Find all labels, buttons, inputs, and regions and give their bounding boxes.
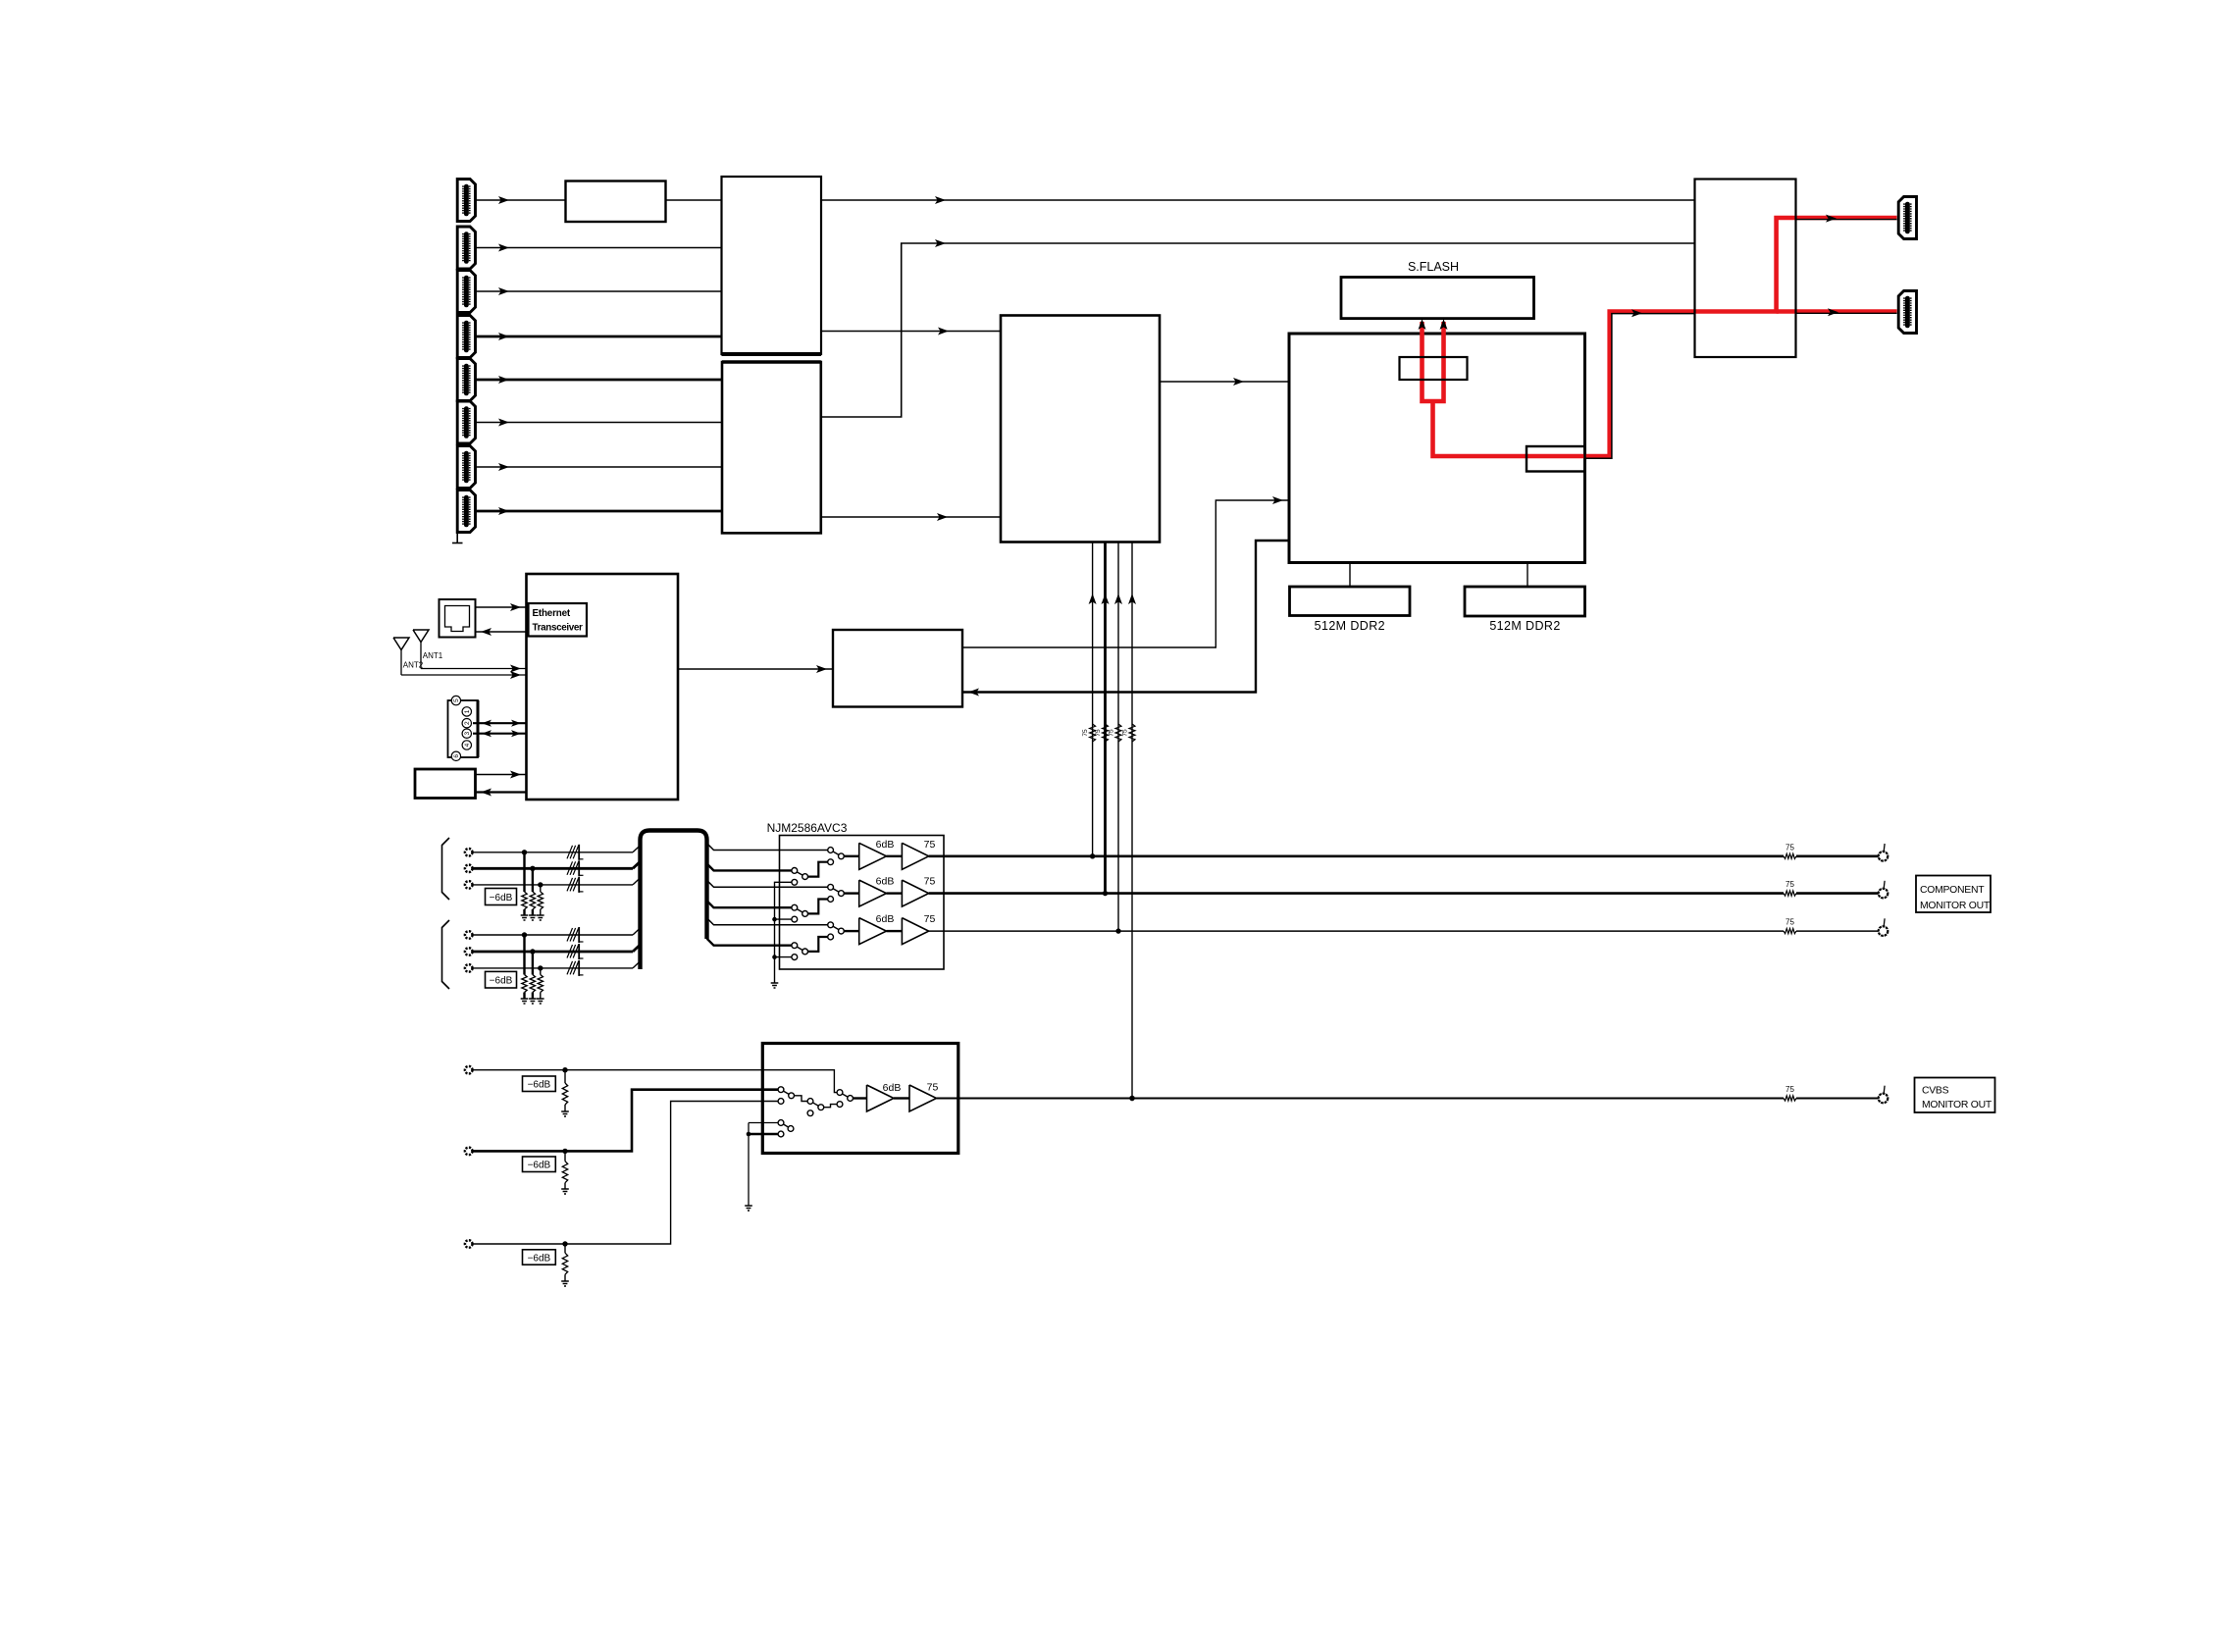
analog switch channel 2 (lower) (792, 904, 808, 922)
wire: analog video return line 2 into processor (1102, 542, 1110, 897)
svg-text:COMPONENT: COMPONENT (1920, 885, 1985, 896)
svg-text:CVBS: CVBS (1922, 1086, 1949, 1097)
component input jack group2 ch1 (465, 931, 473, 939)
wire: HDMI input 3 to HDMI switch (476, 287, 722, 295)
svg-text:NJM2586AVC3: NJM2586AVC3 (767, 821, 848, 835)
DDR2 memory module 1 (1290, 563, 1411, 616)
red HDMI-out video path wire (1433, 218, 1897, 456)
CVBS switch/amp box U70 (762, 1044, 958, 1154)
svg-text:MONITOR OUT: MONITOR OUT (1920, 901, 1991, 911)
wire: HDMI input 7 to HDMI switch (476, 463, 722, 471)
resistor 75 label on return line 3 (1109, 729, 1115, 737)
75 label CVBS (927, 1082, 939, 1094)
-6dB attenuator box CVBS 3 (523, 1250, 556, 1265)
wire: switch U12 out up to HDMI TX (821, 239, 1695, 417)
component input wire group1 ch3 (472, 877, 640, 893)
component input wire group1 ch1 (472, 845, 640, 860)
wire: video processor to SoC (1160, 378, 1289, 386)
wire: network module to RJ45 (476, 628, 527, 636)
component input wire group2 ch3 (472, 960, 640, 976)
component output wire ch3 (929, 929, 1879, 934)
75 label ch2 (924, 876, 936, 888)
component input wire group2 ch2 (472, 944, 640, 959)
CVBS amplifier 6dB (867, 1085, 895, 1111)
wire: ANT2 to module (401, 671, 527, 679)
wire: HDMI input 2 to HDMI switch (476, 244, 722, 252)
resistor 75 label on return line 4 (1122, 729, 1129, 737)
svg-text:75: 75 (924, 913, 936, 925)
wire amp to buffer ch1 (887, 855, 903, 857)
wire: bundle exit 4 (707, 901, 792, 907)
CVBS input wire 3 (472, 1102, 778, 1247)
CVBS buffer 75 (909, 1085, 937, 1111)
wire: DIN pin2 to module (bidirectional) (473, 720, 527, 727)
COMPONENT MONITOR OUT label box (1916, 876, 1991, 913)
amplifier 6dB ch3 (859, 918, 887, 945)
-6dB attenuator box CVBS 2 (523, 1157, 556, 1172)
component input jack group1 ch2 (465, 865, 473, 873)
component input wire group1 ch2 (472, 860, 640, 876)
buffer amp 75 ch3 (902, 918, 928, 945)
wire: network module to bridge box (678, 665, 833, 673)
CVBS termination resistor 3 (561, 1244, 569, 1286)
svg-text:6dB: 6dB (876, 839, 895, 851)
component output jack ch2 (1879, 881, 1889, 899)
svg-text:75: 75 (1109, 729, 1115, 737)
svg-text:75: 75 (1082, 729, 1089, 737)
wire: U51 to module (476, 771, 527, 779)
-6dB attenuator box group 2 (486, 971, 517, 988)
svg-text:MONITOR OUT: MONITOR OUT (1922, 1100, 1992, 1110)
input bracket group 1 (442, 838, 450, 900)
75 output resistor label ch2 (1785, 880, 1794, 889)
analog switch channel 3 (lower) (792, 943, 808, 960)
step wire B to C (824, 1105, 837, 1108)
CVBS selector switch A (778, 1087, 794, 1105)
svg-text:75: 75 (924, 876, 936, 888)
wire: RJ45 to network module (476, 603, 527, 611)
wire switch to CVBS amp (854, 1097, 867, 1099)
svg-text:4: 4 (464, 743, 471, 747)
svg-text:3: 3 (464, 732, 471, 736)
svg-text:6dB: 6dB (876, 876, 895, 888)
HDMI input connector J3 (457, 271, 475, 313)
svg-text:−6dB: −6dB (528, 1253, 551, 1264)
6dB label CVBS (883, 1082, 902, 1094)
svg-text:5: 5 (453, 698, 460, 702)
termination resistor group1 ch3 (537, 885, 544, 920)
resistor 75 label on return line 2 (1095, 729, 1102, 737)
wire: bundle exit 6 (707, 939, 792, 946)
step wire A to B (795, 1096, 808, 1102)
svg-text:512M DDR2: 512M DDR2 (1489, 619, 1560, 633)
CVBS mute ground bus (745, 1123, 778, 1212)
CVBS input wire 1 (472, 1067, 837, 1093)
wire amp to buffer ch3 (887, 930, 903, 932)
mini-DIN pins (448, 696, 479, 760)
termination resistor group2 ch2 (529, 952, 537, 1004)
SoC main processor U30 (1289, 334, 1585, 563)
S.FLASH memory U31 (1341, 278, 1534, 319)
CVBS output wire (937, 1096, 1879, 1101)
termination resistor group1 ch1 (521, 852, 529, 920)
wire: HDMI input 5 to HDMI switch (476, 376, 722, 384)
component output wire ch2 (929, 891, 1879, 896)
svg-text:2: 2 (464, 721, 471, 725)
HDMI input connector J7 (457, 446, 475, 489)
svg-text:−6dB: −6dB (528, 1161, 551, 1171)
75 output resistor label ch3 (1785, 918, 1794, 927)
wire switch to amp ch3 (844, 930, 858, 932)
termination resistor group1 ch2 (529, 868, 537, 920)
wire: analog video return line 1 into processor (1089, 542, 1097, 859)
wire: HDMI input 4 to HDMI switch (476, 333, 722, 340)
network module U50 (527, 574, 679, 800)
wire: bundle exit 3 (707, 880, 828, 887)
512M DDR2 label 1 (1315, 619, 1385, 633)
video processor U20 (1001, 316, 1160, 542)
RJ45 connector J20 (440, 599, 476, 638)
step wire lower-switch to upper-alt ch2 (808, 900, 828, 914)
arrows into S.FLASH (1419, 319, 1448, 330)
svg-text:75: 75 (1785, 918, 1794, 927)
analog switch channel 1 (upper) (828, 848, 845, 865)
CVBS MONITOR OUT label box (1915, 1078, 1995, 1113)
HDMI output interface box U33 on SoC edge (1526, 446, 1585, 472)
wire: HDMI input 8 to HDMI switch (476, 507, 722, 515)
ANT2 label (403, 661, 424, 670)
CVBS selector switch B (807, 1099, 824, 1116)
buffer amp 75 ch2 (902, 880, 928, 906)
wire: module to U51 (476, 789, 527, 797)
svg-text:6dB: 6dB (876, 913, 895, 925)
svg-text:512M DDR2: 512M DDR2 (1315, 619, 1385, 633)
6dB label ch2 (876, 876, 895, 888)
HDMI output connector J11 (1898, 197, 1916, 239)
NJM mute ground bus (771, 882, 792, 988)
svg-text:−6dB: −6dB (528, 1080, 551, 1091)
75 output resistor label ch1 (1785, 843, 1794, 852)
svg-text:ANT2: ANT2 (403, 661, 424, 670)
wire switch to amp ch2 (844, 892, 858, 894)
wire: switch U11 out to video processor (821, 328, 1001, 336)
wire CVBS amp to buffer (894, 1097, 909, 1099)
component input jack group1 ch1 (465, 849, 473, 856)
step wire lower-switch to upper-alt ch3 (808, 937, 828, 952)
resistor 75 label on return line 1 (1082, 729, 1089, 737)
svg-text:75: 75 (1122, 729, 1129, 737)
component output jack ch3 (1879, 918, 1889, 936)
component output jack ch1 (1879, 844, 1889, 861)
svg-text:6dB: 6dB (883, 1082, 902, 1094)
antenna ANT2 (393, 638, 409, 675)
wire: DIN pin3 to module (bidirectional) (473, 730, 527, 737)
S.FLASH label (1408, 260, 1459, 274)
red wire branch to HDMI OUT 2 (1777, 309, 1897, 314)
amplifier 6dB ch2 (859, 880, 887, 906)
CVBS input wire 2 (472, 1090, 778, 1154)
svg-text:1: 1 (464, 709, 471, 713)
black signal wire under red path (SoC to HDMI TX) (1585, 309, 1695, 458)
EDID buffer box U10 (566, 181, 666, 223)
CVBS output jack (1879, 1086, 1889, 1104)
wire: bundle exit 5 (707, 918, 828, 925)
component input jack group2 ch3 (465, 964, 473, 972)
chassis ground bus for HDMI inputs 4-8 (452, 317, 463, 543)
antenna ANT1 (413, 630, 429, 669)
black wire TX to HDMI OUT 1 (1796, 215, 1897, 223)
svg-text:75: 75 (927, 1082, 939, 1094)
75 output resistor label CVBS (1785, 1085, 1794, 1094)
cable bundle trunk (641, 831, 707, 970)
component input jack group2 ch2 (465, 948, 473, 955)
component input wire group2 ch1 (472, 927, 640, 943)
HDMI input connector J2 (457, 227, 475, 269)
HDMI switch U11 (722, 177, 822, 354)
analog switch channel 1 (lower) (792, 868, 808, 886)
wire: ANT1 to module (421, 665, 527, 673)
HDMI input connector J4 (457, 316, 475, 358)
component input jack group1 ch3 (465, 881, 473, 889)
analog switch channel 3 (upper) (828, 922, 845, 940)
wire: bridge box to SoC (962, 496, 1289, 647)
svg-text:ANT1: ANT1 (423, 651, 443, 660)
HDMI input connector J6 (457, 401, 475, 443)
HDMI output connector J12 (1898, 291, 1916, 334)
CVBS input jack 1 (465, 1066, 473, 1074)
front-panel box U51 (415, 769, 476, 799)
component output wire ch1 (929, 853, 1879, 858)
svg-text:75: 75 (1785, 1085, 1794, 1094)
CVBS input jack 2 (465, 1148, 473, 1156)
flash controller box U32 (1400, 357, 1468, 380)
75 label ch1 (924, 839, 936, 851)
NJM2586AVC3 video amp box U60 (780, 836, 945, 970)
svg-text:75: 75 (1785, 880, 1794, 889)
wire: analog video return line 3 into processor (1114, 542, 1122, 934)
wire: bundle exit 1 (707, 844, 828, 851)
wire: analog video return line 4 into processor (1128, 542, 1136, 1102)
NJM2586AVC3 label (767, 821, 848, 835)
termination resistor group2 ch1 (521, 935, 529, 1004)
svg-text:6: 6 (453, 754, 460, 758)
-6dB attenuator box group 1 (486, 889, 517, 905)
amplifier 6dB ch1 (859, 843, 887, 869)
CVBS input jack 3 (465, 1240, 473, 1248)
svg-text:S.FLASH: S.FLASH (1408, 260, 1459, 274)
75 label ch3 (924, 913, 936, 925)
wire: switch U11 out to HDMI TX (top) (821, 196, 1695, 204)
HDMI input connector J8 (457, 490, 475, 533)
buffer amp 75 ch1 (902, 843, 928, 869)
HDMI transmitter U40 (1695, 180, 1796, 358)
HDMI input connector J1 (457, 180, 475, 222)
wire: HDMI input 1 to HDMI switch (476, 196, 722, 204)
CVBS mute contacts (778, 1120, 794, 1137)
black wire TX to HDMI OUT 2 (1796, 308, 1897, 316)
svg-text:Ethernet: Ethernet (533, 608, 571, 619)
6dB label ch3 (876, 913, 895, 925)
-6dB attenuator box CVBS 1 (523, 1076, 556, 1092)
wire: SoC to bridge box (962, 541, 1289, 697)
svg-text:−6dB: −6dB (490, 893, 513, 903)
wire amp to buffer ch2 (887, 892, 903, 894)
svg-text:−6dB: −6dB (490, 976, 513, 987)
bridge box U52 (833, 630, 962, 707)
CVBS termination resistor 1 (561, 1070, 569, 1116)
wire: switch U12 out to video processor (821, 513, 1001, 521)
wire switch to amp ch1 (844, 855, 858, 857)
wire: bundle exit 2 (707, 863, 792, 870)
analog switch channel 2 (upper) (828, 884, 845, 902)
CVBS termination resistor 2 (561, 1151, 569, 1194)
HDMI switch U12 (722, 362, 821, 533)
HDMI input connector J5 (457, 359, 475, 401)
red flash bus wire (S.FLASH U-loop) (1423, 322, 1444, 401)
svg-text:Transceiver: Transceiver (533, 623, 584, 634)
input bracket group 2 (442, 920, 450, 989)
6dB label ch1 (876, 839, 895, 851)
CVBS selector switch C (837, 1090, 853, 1108)
ANT1 label (423, 651, 443, 660)
512M DDR2 label 2 (1489, 619, 1560, 633)
svg-text:75: 75 (924, 839, 936, 851)
termination resistor group2 ch3 (537, 968, 544, 1004)
wire: HDMI input 6 to HDMI switch (476, 419, 722, 427)
step wire lower-switch to upper-alt ch1 (808, 862, 828, 877)
svg-text:75: 75 (1095, 729, 1102, 737)
svg-text:75: 75 (1785, 843, 1794, 852)
Ethernet Transceiver label box (529, 603, 588, 637)
DDR2 memory module 2 (1465, 563, 1585, 617)
